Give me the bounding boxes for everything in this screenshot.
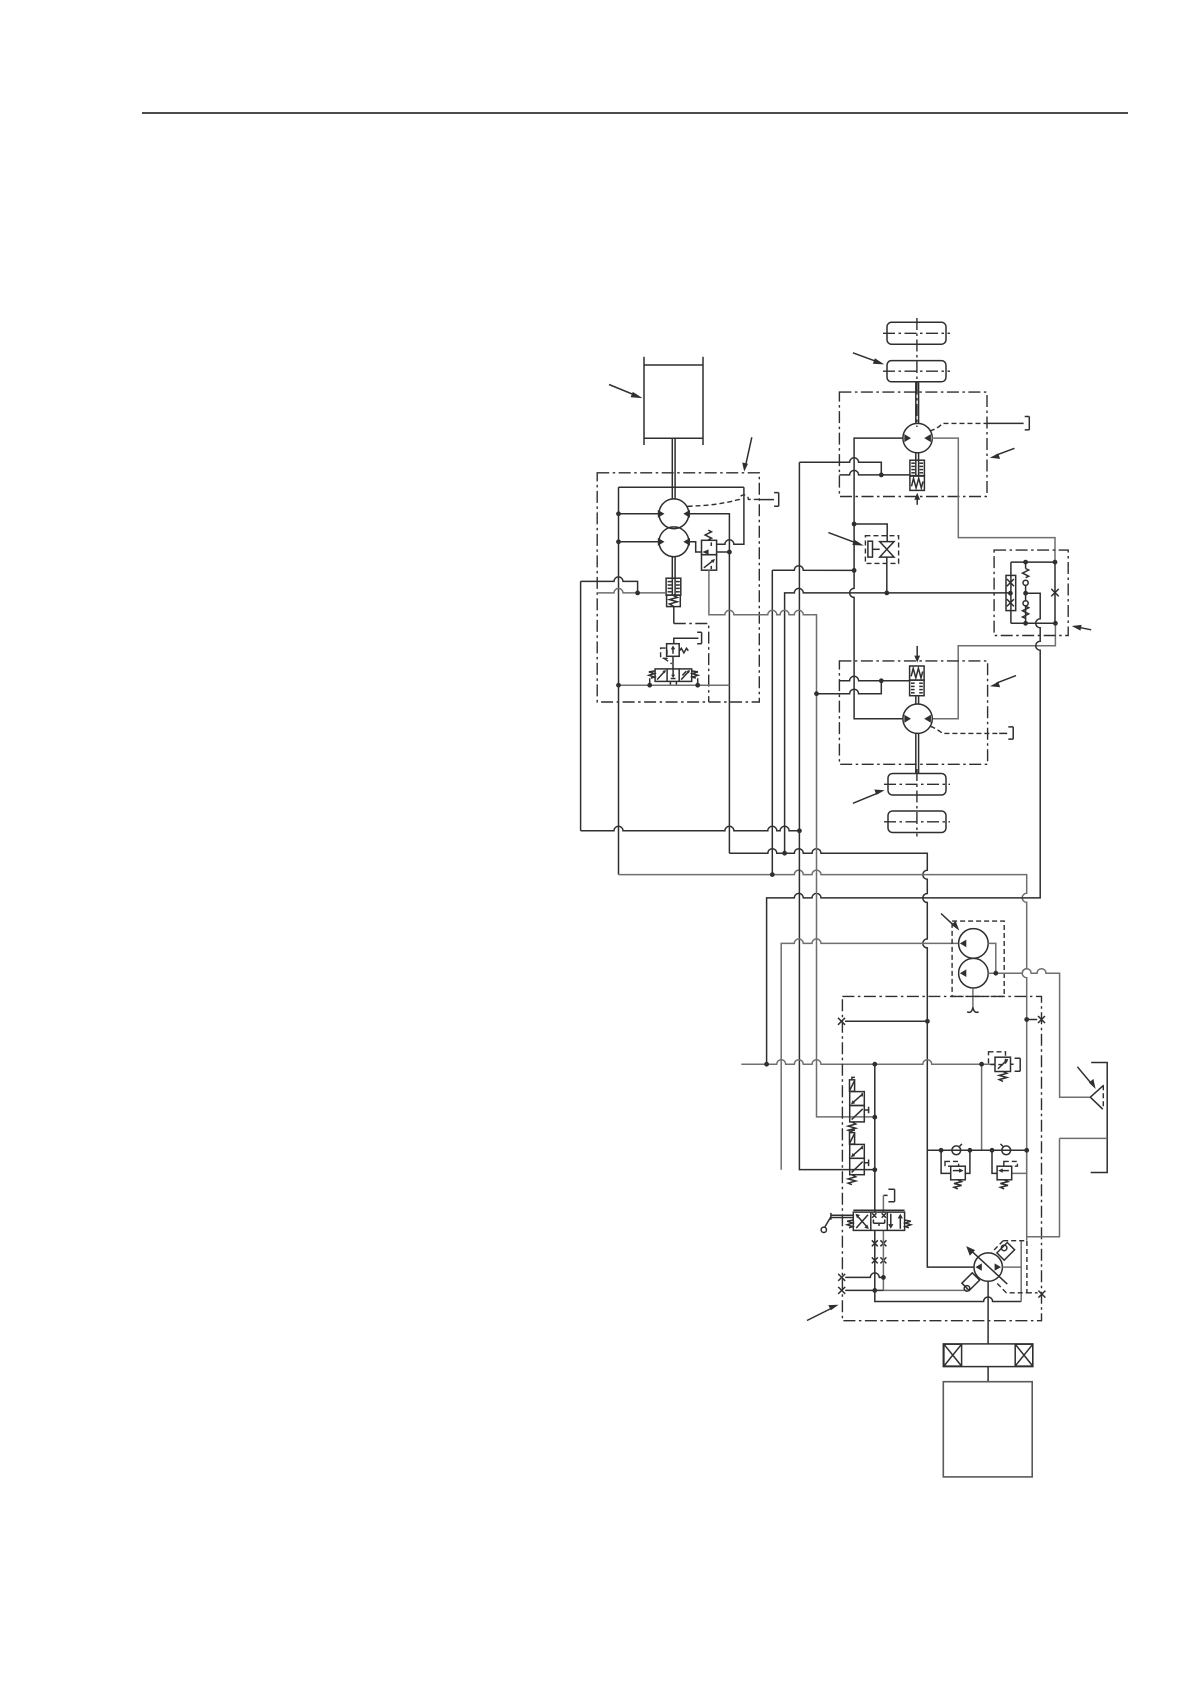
wire: pilot tank line — [619, 684, 730, 686]
charge relief valve — [995, 1057, 1011, 1071]
tank port bracket — [1091, 1063, 1108, 1173]
leader to front motor — [990, 448, 1015, 459]
inner boundary (dash-dot) — [674, 624, 709, 703]
solenoid valve A coil — [850, 1080, 855, 1092]
wire: V3 drop to valve B — [799, 462, 874, 1169]
front axle centerlines — [916, 318, 918, 427]
leader to rear motor — [990, 676, 1016, 688]
M1 control spring — [910, 476, 925, 490]
parking brake valve box — [865, 536, 898, 564]
wire: boundary drain — [597, 588, 666, 592]
bypass orifice column — [1054, 562, 1056, 623]
wire: counterbalance to H4 — [767, 593, 1041, 1064]
wire: M1 inner pilot — [839, 470, 910, 475]
front motor enclosure — [839, 392, 987, 496]
M1 axle shaft — [916, 382, 919, 424]
line orifice X — [872, 1240, 878, 1246]
wire: V1 drop — [771, 570, 773, 874]
wire: tank suction — [1060, 1137, 1108, 1139]
leader to charge pump — [941, 914, 959, 931]
solenoid valve B body — [850, 1144, 865, 1158]
rear tire outer — [888, 811, 946, 833]
wire: left gallery — [618, 487, 620, 874]
check valve upper — [1025, 562, 1027, 593]
valve B tank port — [864, 1160, 868, 1167]
orifice X lower — [1007, 599, 1014, 606]
front tire outer — [887, 322, 946, 344]
port mark X — [1038, 1016, 1045, 1023]
rear motor enclosure — [839, 661, 987, 764]
wire: P1 pressure bus (H2) — [729, 849, 974, 1267]
drain test port T — [774, 493, 779, 507]
control lever — [825, 1213, 853, 1227]
P0 swash arrow — [971, 1251, 1007, 1284]
leader to parking valve — [828, 533, 863, 546]
pilot port T — [883, 1189, 894, 1201]
travel control valve body — [853, 1212, 904, 1230]
wire: servo pilot drop — [1026, 1150, 1028, 1240]
leader to oil tank — [609, 385, 643, 399]
pilot relief spring — [680, 648, 689, 653]
wire: M2 right port — [932, 623, 1055, 718]
wire: parking valve feed — [854, 524, 887, 542]
valve B symbols — [852, 1146, 863, 1173]
unloader port marks — [704, 542, 714, 569]
charge relief tank port — [1011, 1058, 1021, 1071]
wire: servo gallery — [1020, 1241, 1022, 1302]
wire: P0 right port — [1002, 1266, 1021, 1268]
unloader valve spring — [705, 530, 711, 540]
counterbalance valve block — [994, 550, 1068, 635]
pilot valve right spring — [692, 671, 698, 678]
unloader valve body — [702, 540, 717, 554]
parking valve element — [880, 542, 894, 550]
wire: P1 left port — [619, 513, 660, 515]
M2 axle shaft — [916, 733, 919, 773]
rear tire inner — [888, 774, 946, 796]
charge pump 1 — [959, 929, 989, 959]
wire: charge gallery (H3) — [619, 870, 1027, 1173]
drive shaft — [987, 1281, 989, 1344]
valve A spring — [848, 1122, 856, 1132]
valve A tank port — [864, 1107, 868, 1114]
wire: control feed (H6) — [741, 1060, 995, 1065]
wire: unloader sense — [717, 551, 730, 553]
wire: brake pilot tap — [845, 1020, 927, 1022]
pilot valve tank stubs — [650, 678, 698, 685]
P0 flow arrows — [975, 1263, 981, 1270]
valve A symbols — [852, 1093, 863, 1120]
check valve lower — [1025, 593, 1027, 623]
front tire inner — [887, 361, 946, 382]
suction strainer — [972, 988, 974, 1008]
brake valve R frame — [992, 1150, 997, 1173]
M2 pilot arrow — [916, 646, 918, 656]
coupling spring — [667, 595, 681, 607]
brake valve R — [997, 1166, 1012, 1180]
flexible coupling — [943, 1344, 1033, 1367]
brake check ball R — [1002, 1146, 1011, 1155]
junction dots — [616, 473, 1058, 1293]
wire: valve B port riser — [883, 1195, 967, 1290]
wire: P1 outlet riser — [689, 514, 729, 853]
coupling shaft — [672, 557, 675, 579]
pump assembly enclosure — [597, 473, 759, 702]
wire: parking valve out — [886, 557, 888, 593]
line orifice X — [880, 1257, 886, 1263]
return filter — [1090, 1085, 1103, 1109]
main pump P0 — [974, 1253, 1002, 1281]
orifice X upper — [1007, 579, 1014, 586]
leader to front tires — [853, 353, 884, 365]
rear axle centerlines — [916, 769, 918, 837]
brake valve L — [951, 1166, 966, 1180]
valve B spring — [848, 1175, 856, 1185]
charge relief spring — [999, 1072, 1007, 1082]
unloader inlet arrow — [702, 549, 708, 554]
solenoid valve B coil — [850, 1133, 855, 1145]
M1 case drain — [930, 423, 987, 431]
wire: relief branch drop — [981, 1064, 983, 1150]
M2 drain port T — [1008, 727, 1013, 739]
wire: pilot supply trunk (V4) — [709, 570, 875, 1117]
wire: brake pilot (H570) — [772, 566, 854, 571]
wire: drain bus (H1) — [581, 826, 800, 831]
M1 speed control cylinder — [916, 453, 919, 476]
wire: M2 pilot supply — [817, 681, 882, 694]
charge pump enclosure — [952, 921, 1004, 996]
servo enclosure — [992, 1241, 1038, 1293]
wire: drain stub — [759, 499, 774, 501]
wire: servo pilot stub — [1027, 1019, 1038, 1021]
motor M2 — [903, 704, 932, 733]
M2 control spring — [910, 666, 925, 680]
pilot valve left spring — [649, 671, 655, 678]
leader to pump assembly — [742, 437, 752, 471]
brake valve L frame — [941, 1150, 970, 1173]
port mark X — [838, 1287, 845, 1294]
motor M1 — [903, 423, 932, 452]
pilot test port — [674, 632, 702, 643]
solenoid valve A body — [850, 1092, 865, 1106]
wire: left case drop — [580, 581, 582, 830]
pilot control valve — [655, 669, 692, 682]
travel valve springs — [847, 1220, 853, 1228]
hydrostatic control enclosure — [842, 996, 1041, 1320]
wire: pump gallery loop — [619, 486, 744, 488]
oil tank T1 — [644, 357, 703, 445]
P2 flow arrows — [658, 538, 665, 546]
main pump P1 — [659, 499, 689, 529]
M1 drain port T — [1025, 417, 1030, 430]
charge pump 2 — [959, 958, 989, 988]
parking valve solenoid — [868, 541, 873, 557]
line orifice X — [872, 1257, 878, 1263]
M2 case drain — [930, 726, 999, 733]
wire: brake apply X line — [845, 1273, 883, 1278]
orifice column — [1010, 562, 1012, 623]
pilot relief sense box — [661, 648, 667, 658]
port mark X — [838, 1274, 845, 1281]
main pump P2 — [659, 527, 689, 557]
wire: M1 right port — [932, 438, 1055, 562]
bypass orifice X — [1051, 589, 1058, 596]
port mark X — [1038, 1291, 1045, 1298]
wire: tank to servo — [1027, 1138, 1059, 1236]
brake check ball L — [952, 1146, 961, 1155]
wire: M2 inner pilot — [839, 676, 909, 680]
wire: charge feed stub (H5) — [781, 939, 959, 1170]
wire: motor1 left / brake release trunk — [850, 438, 904, 719]
P1 flow arrows — [658, 510, 665, 518]
pump drive shaft — [672, 438, 675, 499]
block bottom link — [1011, 622, 1056, 624]
wire: M1 pilot supply — [799, 458, 881, 475]
P0 servo lower — [962, 1273, 980, 1291]
wire: relief to pilot valve — [672, 656, 674, 669]
block top link — [1011, 561, 1055, 563]
line orifice X — [880, 1240, 886, 1246]
P0 servo upper — [997, 1243, 1015, 1261]
leader to enclosure — [807, 1305, 839, 1321]
leader to filter — [1077, 1067, 1095, 1089]
travel valve cell symbols — [856, 1215, 868, 1228]
charge relief sense box — [989, 1052, 1006, 1065]
leader to counterbalance block — [1072, 625, 1092, 631]
wire: coupling tail — [673, 607, 675, 624]
port mark X — [838, 1018, 845, 1025]
wire: charge pump link — [988, 943, 996, 973]
M1 flow arrows — [904, 434, 911, 442]
M2 speed control cylinder — [910, 680, 925, 696]
wire: counterbalance feed (H592) — [785, 588, 1011, 853]
engine — [943, 1382, 1032, 1477]
torsional coupling — [666, 578, 681, 595]
brake valve L spring — [954, 1180, 962, 1189]
pump case drain (dashed) — [687, 495, 759, 506]
wire: charge outlet to filter — [996, 969, 1091, 1097]
wire: brake shuttle line — [927, 1149, 1026, 1151]
wire: case drain jog — [581, 577, 638, 593]
M2 flow arrows — [904, 715, 911, 723]
M1 pilot arrow — [916, 500, 918, 505]
wire: unloader to loop — [717, 487, 744, 544]
wire: valve A port riser — [875, 1064, 1021, 1301]
brake valve R spring — [1000, 1180, 1008, 1189]
wire: brake X line lower — [845, 1289, 883, 1291]
top rule — [142, 112, 1128, 114]
wire: P2 outlet to unloader — [689, 542, 701, 552]
leader to rear tires — [853, 790, 885, 804]
wire: P2 left port — [619, 541, 660, 543]
pilot relief valve — [667, 644, 680, 657]
pilot valve symbols — [657, 669, 689, 680]
